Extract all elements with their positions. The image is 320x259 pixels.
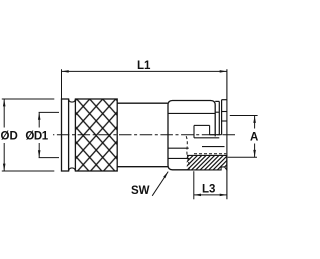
wire right face / extension line: [226, 69, 228, 199]
svg-text:L1: L1: [137, 60, 151, 72]
svg-text:L3: L3: [202, 184, 215, 196]
node hex nut body: [168, 101, 215, 170]
wire centerline: [53, 134, 235, 136]
node groove neck: [69, 99, 76, 170]
dimension L1: [62, 60, 227, 99]
dimension L3: [194, 171, 227, 199]
node section hatch: [168, 150, 250, 172]
node knurled sleeve: [75, 99, 117, 171]
svg-text:ØD: ØD: [1, 131, 18, 143]
node mid cylinder: [117, 103, 168, 167]
node threaded boss: [222, 100, 227, 135]
wire break line (partial section boundary): [186, 136, 189, 170]
label SW with leader: [131, 172, 168, 197]
dimension OD: [1, 99, 55, 171]
dimension OD1: [25, 112, 59, 157]
node cap (left end flange): [62, 99, 69, 171]
node washer collar: [215, 101, 219, 134]
svg-text:A: A: [250, 131, 258, 143]
svg-text:SW: SW: [131, 185, 150, 197]
svg-text:ØD1: ØD1: [25, 131, 48, 143]
dimension A: [228, 116, 259, 158]
node section bore lines: [194, 125, 226, 153]
